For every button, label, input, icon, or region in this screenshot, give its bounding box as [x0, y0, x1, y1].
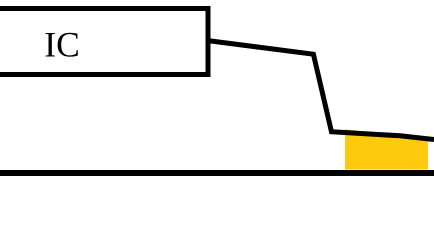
- IC U1: [0, 9, 208, 75]
- svg-text:IC: IC: [44, 25, 80, 65]
- yellow pad (gold rectangle): [345, 129, 428, 169]
- wire: [207, 41, 434, 140]
- ground plane line: [0, 170, 434, 176]
